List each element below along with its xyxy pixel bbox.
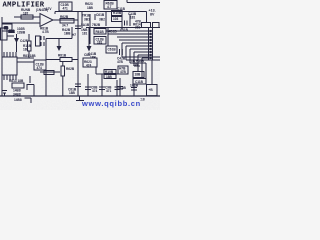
svg-text:181: 181 xyxy=(82,32,88,36)
svg-text:C8B: C8B xyxy=(84,53,91,57)
svg-text:181: 181 xyxy=(97,41,103,45)
svg-text:C42F: C42F xyxy=(20,39,28,43)
svg-text:47B: 47B xyxy=(135,20,142,24)
svg-text:4.7: 4.7 xyxy=(107,5,112,9)
svg-text:1BB: 1BB xyxy=(64,32,71,36)
svg-text:+17V: +17V xyxy=(44,7,52,11)
svg-text:C11B: C11B xyxy=(120,28,129,32)
svg-text:4B1B: 4B1B xyxy=(109,30,118,34)
svg-text:18B: 18B xyxy=(90,55,97,59)
svg-text:www.qqibb.cn: www.qqibb.cn xyxy=(81,99,141,108)
svg-text:474: 474 xyxy=(37,66,43,70)
svg-text:471: 471 xyxy=(106,89,112,93)
svg-text:12BB: 12BB xyxy=(17,31,26,35)
svg-text:281: 281 xyxy=(135,26,141,30)
svg-text:C11B: C11B xyxy=(135,80,144,84)
svg-text:3B1: 3B1 xyxy=(84,17,90,21)
svg-text:+B: +B xyxy=(149,88,154,92)
svg-text:5A1B: 5A1B xyxy=(81,23,90,27)
svg-text:3B2: 3B2 xyxy=(99,17,105,21)
svg-text:14B: 14B xyxy=(120,86,127,90)
svg-text:103: 103 xyxy=(113,17,119,21)
svg-text:R10B: R10B xyxy=(113,11,122,15)
svg-text:4.7B: 4.7B xyxy=(42,30,49,34)
svg-text:7B2B: 7B2B xyxy=(92,23,101,27)
svg-text:18B: 18B xyxy=(87,6,94,10)
svg-text:R81B: R81B xyxy=(58,54,67,58)
svg-text:R61B: R61B xyxy=(96,30,105,34)
svg-text:47B: 47B xyxy=(120,70,127,74)
svg-text:471: 471 xyxy=(63,6,69,10)
svg-text:474: 474 xyxy=(92,89,98,93)
svg-text:14B8: 14B8 xyxy=(14,98,22,102)
svg-text:18k: 18k xyxy=(23,48,29,52)
svg-text:8V: 8V xyxy=(150,13,155,17)
svg-text:1B2: 1B2 xyxy=(9,30,15,34)
svg-text:187: 187 xyxy=(23,12,29,16)
svg-text:18B: 18B xyxy=(135,73,142,77)
svg-text:474: 474 xyxy=(86,64,92,68)
svg-text:47B: 47B xyxy=(117,60,124,64)
svg-text:18B: 18B xyxy=(106,75,113,79)
svg-text:34.7: 34.7 xyxy=(62,24,68,28)
svg-text:R813 18B: R813 18B xyxy=(9,79,24,83)
svg-text:C61B: C61B xyxy=(108,48,117,52)
svg-text:R62B: R62B xyxy=(66,67,75,71)
svg-text:34B8: 34B8 xyxy=(13,92,21,96)
svg-text:18B: 18B xyxy=(69,91,76,95)
svg-text:H7: H7 xyxy=(72,33,76,37)
svg-text:R62B: R62B xyxy=(60,15,69,19)
svg-text:R10B: R10B xyxy=(105,70,114,74)
svg-text:18B: 18B xyxy=(133,63,140,67)
svg-text:R81 18B: R81 18B xyxy=(23,54,36,58)
svg-text:1B1B: 1B1B xyxy=(130,84,139,88)
